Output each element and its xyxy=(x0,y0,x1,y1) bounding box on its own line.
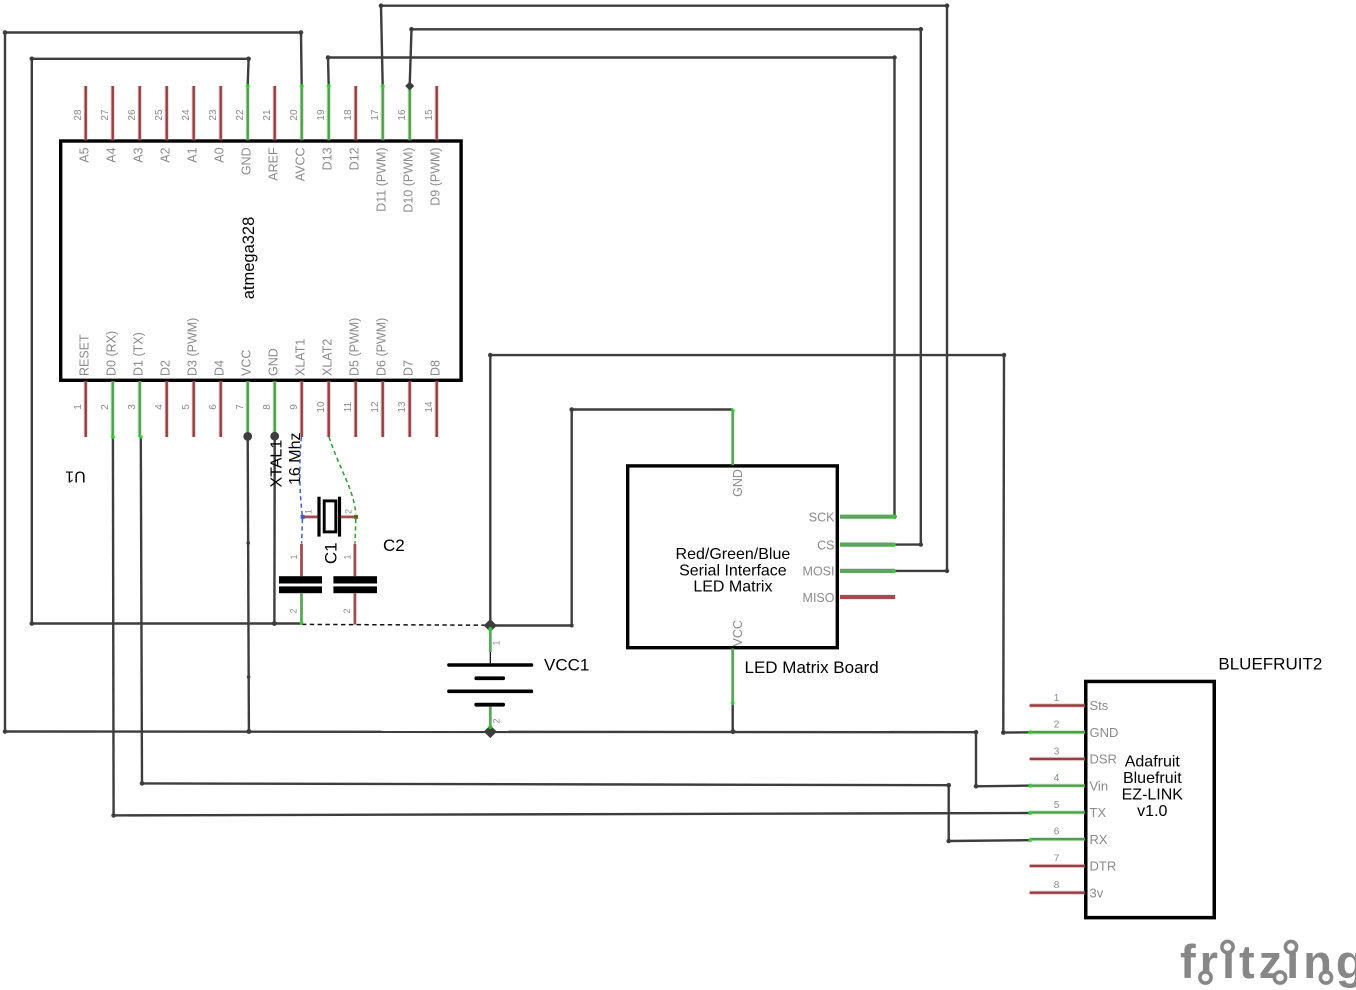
U1 pin 23 (A0) top stub xyxy=(218,86,222,140)
svg-text:8: 8 xyxy=(1054,880,1060,891)
svg-text:LED Matrix Board: LED Matrix Board xyxy=(745,658,879,677)
LED matrix body xyxy=(628,466,838,648)
U1 pin 14 (D8) bottom stub xyxy=(435,381,439,437)
U1 pin 27 (A4) top stub xyxy=(110,86,114,140)
U1 pin 12 (D6 (PWM)) bottom stub xyxy=(381,381,385,437)
svg-text:Red/Green/Blue: Red/Green/Blue xyxy=(676,546,791,563)
crystal XTAL1 left plate xyxy=(317,497,320,537)
capacitor C2 plate1 xyxy=(333,576,377,583)
wire D13/SCK horizontal xyxy=(328,56,895,58)
svg-text:D1 (TX): D1 (TX) xyxy=(132,332,146,376)
svg-text:4: 4 xyxy=(154,404,165,410)
crystal XTAL1 body xyxy=(324,501,336,532)
svg-text:6: 6 xyxy=(1054,827,1060,838)
U1 pin 28 (A5) top stub xyxy=(83,86,87,140)
svg-text:U1: U1 xyxy=(65,468,86,485)
svg-text:17: 17 xyxy=(370,109,381,121)
svg-text:1: 1 xyxy=(73,404,84,410)
capacitor C1 plate1 xyxy=(279,576,322,583)
svg-text:1: 1 xyxy=(304,509,314,514)
svg-text:15: 15 xyxy=(424,109,435,121)
svg-text:XTAL1: XTAL1 xyxy=(269,440,286,488)
U1 pin 8 (GND) bottom stub xyxy=(273,381,277,437)
svg-text:D4: D4 xyxy=(213,360,227,376)
svg-text:A0: A0 xyxy=(213,147,227,162)
svg-text:8: 8 xyxy=(262,404,273,410)
U1 pin 13 (D7) bottom stub xyxy=(408,381,412,437)
wire VCC pin7 vertical xyxy=(248,436,249,731)
svg-text:A1: A1 xyxy=(186,147,200,162)
LED matrix SCK stub xyxy=(840,515,896,519)
svg-text:2: 2 xyxy=(344,509,354,514)
LED matrix CS stub xyxy=(840,542,895,546)
svg-text:VCC1: VCC1 xyxy=(544,656,589,675)
wire LED VCC down xyxy=(732,703,734,731)
svg-text:Bluefruit: Bluefruit xyxy=(1123,770,1182,787)
svg-text:D13: D13 xyxy=(321,147,335,170)
Bluefruit pin 3 (DSR) stub xyxy=(1030,757,1085,761)
U1 pin 20 (AVCC) top stub xyxy=(300,86,304,140)
wire RX pin2 vertical xyxy=(112,437,115,815)
svg-text:D2: D2 xyxy=(159,360,173,376)
battery plate long1 xyxy=(447,663,533,666)
U1 pin 2 (D0 (RX)) bottom stub xyxy=(110,381,114,437)
svg-text:atmega328: atmega328 xyxy=(240,217,258,300)
svg-text:1: 1 xyxy=(342,554,352,559)
U1 pin 10 (XLAT2) bottom stub xyxy=(327,381,331,437)
svg-text:5: 5 xyxy=(1054,800,1060,811)
wire GND drop to pin22 xyxy=(246,59,249,86)
svg-text:1: 1 xyxy=(289,554,299,559)
svg-text:LED Matrix: LED Matrix xyxy=(693,579,772,596)
IC U1 atmega328 body xyxy=(61,141,461,380)
svg-text:2: 2 xyxy=(289,608,299,613)
U1 pin 9 (XLAT1) bottom stub xyxy=(300,381,304,437)
ratsnest green crystal pin2 to C2 pin1 xyxy=(354,519,357,544)
Bluefruit pin 4 (Vin) stub xyxy=(1030,784,1085,788)
svg-text:D0 (RX): D0 (RX) xyxy=(105,331,119,376)
svg-text:AREF: AREF xyxy=(267,147,281,181)
battery plate short2 xyxy=(474,703,505,707)
wire AVCC pin20: horizontal top xyxy=(5,31,301,33)
wire VCC to Vin vertical xyxy=(975,732,977,786)
svg-text:3: 3 xyxy=(127,404,138,410)
svg-text:MOSI: MOSI xyxy=(803,565,835,579)
U1 pin 7 (VCC) bottom stub xyxy=(245,381,249,437)
svg-text:DSR: DSR xyxy=(1090,752,1117,767)
svg-text:Adafruit: Adafruit xyxy=(1125,754,1181,771)
Bluefruit pin 7 (DTR) stub xyxy=(1030,864,1085,868)
svg-text:13: 13 xyxy=(397,401,408,413)
LED matrix MOSI stub xyxy=(840,569,895,573)
svg-text:2: 2 xyxy=(100,404,111,410)
svg-text:12: 12 xyxy=(370,401,381,413)
svg-text:GND: GND xyxy=(1090,725,1119,740)
U1 pin 17 (D11 (PWM)) top stub xyxy=(381,86,385,140)
svg-text:11: 11 xyxy=(343,401,354,412)
svg-text:9: 9 xyxy=(289,404,300,410)
wire D11 drop to pin17 xyxy=(381,6,383,86)
svg-text:GND: GND xyxy=(240,147,254,175)
wire D11/MOSI top horizontal xyxy=(381,4,947,6)
Bluefruit pin 1 (Sts) stub xyxy=(1030,703,1085,707)
wire MOSI right vertical xyxy=(946,6,948,571)
wire TX pin3 vertical xyxy=(141,437,142,783)
svg-text:GND: GND xyxy=(267,348,281,376)
svg-text:1: 1 xyxy=(1054,693,1060,704)
wire MOSI link xyxy=(895,570,947,572)
svg-text:CS: CS xyxy=(817,538,834,552)
wire GND pin8 vertical xyxy=(273,436,276,623)
svg-text:EZ-LINK: EZ-LINK xyxy=(1122,787,1184,804)
wire to Bluefruit RX xyxy=(949,839,1030,842)
junction diamond at pin16 xyxy=(405,81,414,90)
crystal pin 1 stub xyxy=(303,516,318,519)
LED matrix MISO stub xyxy=(840,595,895,599)
wire GND left vertical down xyxy=(31,59,33,624)
svg-text:A2: A2 xyxy=(159,147,173,162)
svg-text:D6 (PWM): D6 (PWM) xyxy=(375,318,389,376)
svg-text:14: 14 xyxy=(424,401,435,413)
svg-text:VCC: VCC xyxy=(731,620,745,646)
svg-text:6: 6 xyxy=(208,404,219,410)
wire CS right vertical xyxy=(920,29,922,544)
wire to Bluefruit Vin xyxy=(976,784,1030,787)
wire D13 drop to pin19 xyxy=(327,58,330,87)
U1 pin 26 (A3) top stub xyxy=(137,86,141,140)
Bluefruit pin 2 (GND) stub xyxy=(1030,730,1085,734)
svg-text:3v: 3v xyxy=(1090,885,1104,900)
svg-text:4: 4 xyxy=(1054,773,1060,784)
svg-text:A3: A3 xyxy=(132,147,146,162)
Bluefruit body xyxy=(1086,681,1215,917)
battery pin2 stub xyxy=(489,707,492,728)
crystal XTAL1 right plate xyxy=(338,497,341,537)
LED matrix GND pin stub top xyxy=(731,410,734,465)
LED matrix VCC pin stub bottom xyxy=(731,648,734,703)
capacitor C2 pin1 stub xyxy=(353,544,356,576)
U1 pin 15 (D9 (PWM)) top stub xyxy=(435,86,439,140)
wire TX drop to RX row xyxy=(948,785,950,841)
U1 pin 11 (D5 (PWM)) bottom stub xyxy=(354,381,358,437)
svg-text:2: 2 xyxy=(492,718,502,723)
U1 pin 5 (D3 (PWM)) bottom stub xyxy=(191,381,195,437)
wire TX long horizontal xyxy=(142,783,949,785)
capacitor C2 plate2 xyxy=(333,586,377,593)
svg-text:Sts: Sts xyxy=(1090,698,1109,713)
svg-text:27: 27 xyxy=(100,109,111,121)
svg-text:20: 20 xyxy=(289,109,300,121)
battery plate long2 xyxy=(447,690,533,694)
wire GND horizontal over LED matrix xyxy=(490,354,1004,356)
wire D10 drop to pin16 xyxy=(410,29,412,85)
crystal pin 2 stub xyxy=(341,516,356,519)
svg-text:MISO: MISO xyxy=(803,591,835,605)
svg-text:RX: RX xyxy=(1090,832,1108,847)
svg-text:DTR: DTR xyxy=(1090,859,1117,874)
battery pin1 lead xyxy=(489,652,491,663)
battery plate short1 xyxy=(474,676,505,680)
svg-text:28: 28 xyxy=(73,109,84,121)
U1 pin 1 (RESET) bottom stub xyxy=(83,381,87,437)
svg-text:D7: D7 xyxy=(402,360,416,376)
svg-text:24: 24 xyxy=(181,109,192,121)
Bluefruit pin 8 (3v) stub xyxy=(1030,890,1085,894)
capacitor C2 pin2 stub xyxy=(353,593,356,624)
svg-text:D11 (PWM): D11 (PWM) xyxy=(375,147,389,211)
svg-text:XLAT2: XLAT2 xyxy=(321,339,335,376)
svg-text:21: 21 xyxy=(262,109,273,121)
svg-text:D5 (PWM): D5 (PWM) xyxy=(348,318,362,376)
svg-text:GND: GND xyxy=(731,469,745,497)
capacitor C1 pin2 stub xyxy=(300,593,303,624)
svg-text:Serial Interface: Serial Interface xyxy=(679,562,787,579)
Bluefruit pin 5 (TX) stub xyxy=(1030,810,1085,814)
svg-text:D3 (PWM): D3 (PWM) xyxy=(186,318,200,376)
svg-text:C1: C1 xyxy=(322,542,341,564)
U1 pin 24 (A1) top stub xyxy=(191,86,195,140)
svg-text:18: 18 xyxy=(343,109,354,121)
U1 pin 25 (A2) top stub xyxy=(164,86,168,140)
wire horizontal to LED GND stub xyxy=(572,408,733,410)
svg-text:A4: A4 xyxy=(105,147,119,162)
svg-text:25: 25 xyxy=(154,109,165,121)
capacitor C1 pin1 stub xyxy=(300,544,303,576)
wire D10/CS top horizontal xyxy=(412,28,921,30)
svg-text:Vin: Vin xyxy=(1090,778,1109,793)
svg-text:22: 22 xyxy=(235,109,246,121)
svg-text:BLUEFRUIT2: BLUEFRUIT2 xyxy=(1218,655,1322,674)
svg-text:2: 2 xyxy=(1054,720,1060,731)
wire battery top to LED GND: horizontal xyxy=(490,624,571,626)
svg-text:D12: D12 xyxy=(348,147,362,170)
battery VCC1 junction diamond top xyxy=(484,619,497,632)
svg-text:C2: C2 xyxy=(383,536,405,555)
wire VCC net long horizontal xyxy=(5,730,976,733)
svg-text:3: 3 xyxy=(1054,746,1060,757)
svg-text:1: 1 xyxy=(492,640,502,645)
U1 pin 4 (D2) bottom stub xyxy=(164,381,168,437)
U1 pin 16 (D10 (PWM)) top stub xyxy=(408,86,412,140)
svg-text:AVCC: AVCC xyxy=(294,147,308,181)
wire GND vertical up xyxy=(1002,355,1005,732)
capacitor C1 plate2 xyxy=(279,586,322,593)
wire Bluefruit GND short horizontal xyxy=(1003,731,1029,734)
ratsnest blue pin9 to crystal pin1 xyxy=(300,437,302,515)
svg-text:D9 (PWM): D9 (PWM) xyxy=(429,147,443,205)
svg-text:XLAT1: XLAT1 xyxy=(294,339,308,376)
U1 pin 3 (D1 (TX)) bottom stub xyxy=(137,381,141,437)
ratsnest black C1 pin2 to battery pin1 xyxy=(302,623,486,626)
wire CS link xyxy=(895,543,921,545)
wire GND bottom horizontal to C1 pin2 xyxy=(32,622,302,624)
ratsnest blue crystal pin1 to C1 pin1 xyxy=(301,519,304,544)
connection highlights xyxy=(111,84,1033,842)
svg-text:5: 5 xyxy=(181,404,192,410)
ratsnest green pin10 to crystal pin2 xyxy=(329,437,356,514)
wire GND pin22 horizontal xyxy=(32,58,249,60)
svg-text:23: 23 xyxy=(208,109,219,121)
U1 pin 22 (GND) top stub xyxy=(245,86,249,140)
wire AVCC drop to pin20 xyxy=(300,33,303,87)
battery pin1 stub xyxy=(489,628,492,652)
svg-text:26: 26 xyxy=(127,109,138,121)
svg-text:v1.0: v1.0 xyxy=(1137,803,1167,820)
svg-text:10: 10 xyxy=(316,401,327,413)
svg-text:16: 16 xyxy=(397,109,408,121)
svg-text:A5: A5 xyxy=(78,147,92,162)
svg-text:D8: D8 xyxy=(429,360,443,376)
U1 pin 18 (D12) top stub xyxy=(354,86,358,140)
svg-text:7: 7 xyxy=(1054,853,1060,864)
wire RX long horizontal to Bluefruit TX xyxy=(114,813,1030,815)
svg-text:SCK: SCK xyxy=(809,511,835,525)
svg-text:7: 7 xyxy=(235,404,246,410)
wire vertical up x=571.7 xyxy=(571,410,573,626)
wire GND down to battery top xyxy=(489,355,491,625)
wire AVCC left vertical down xyxy=(4,33,6,732)
battery junction diamond bottom xyxy=(484,725,497,738)
wire SCK link xyxy=(893,516,895,518)
Bluefruit pin 6 (RX) stub xyxy=(1030,837,1085,841)
svg-text:19: 19 xyxy=(316,109,327,121)
svg-text:TX: TX xyxy=(1090,805,1107,820)
svg-text:RESET: RESET xyxy=(78,334,92,376)
U1 pin 19 (D13) top stub xyxy=(327,86,331,140)
U1 pin 21 (AREF) top stub xyxy=(273,86,277,140)
svg-text:D10 (PWM): D10 (PWM) xyxy=(402,147,416,212)
U1 pin 6 (D4) bottom stub xyxy=(218,381,222,437)
svg-text:VCC: VCC xyxy=(240,350,254,376)
wire SCK right vertical xyxy=(893,58,895,517)
svg-text:2: 2 xyxy=(342,608,352,613)
